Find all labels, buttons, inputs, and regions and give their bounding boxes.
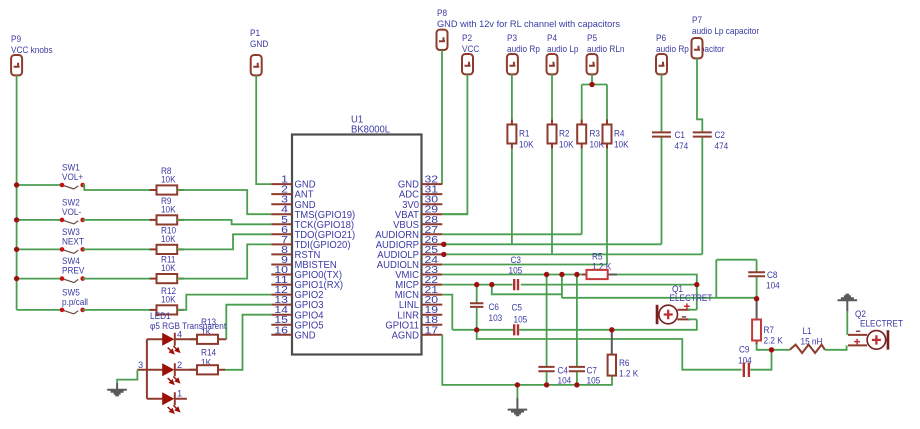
chip right pin lines	[422, 184, 443, 335]
wire R5 to Q1 plus junction	[617, 275, 697, 310]
svg-text:10K: 10K	[161, 175, 176, 185]
svg-text:VCC knobs: VCC knobs	[11, 45, 53, 55]
wire SW3 to R10	[83, 248, 157, 250]
svg-text:P4: P4	[547, 33, 557, 43]
svg-text:1.2 K: 1.2 K	[619, 369, 639, 379]
wire P5 split to R3 R4	[582, 74, 607, 124]
chip left pin names	[295, 180, 356, 342]
wire MICP link row	[492, 275, 757, 298]
svg-text:φ5 RGB Transparent: φ5 RGB Transparent	[150, 321, 226, 331]
svg-text:SW5: SW5	[62, 287, 80, 297]
svg-text:4: 4	[177, 329, 182, 339]
svg-text:R1: R1	[519, 129, 530, 139]
wire C9 to R7 junction	[750, 350, 771, 370]
wire L1 to Q2 plus	[825, 345, 847, 349]
wire LED pin 3 to ground	[117, 370, 137, 383]
wire R12 to pin 12	[177, 295, 271, 310]
svg-text:SW4: SW4	[62, 256, 80, 266]
wire P4 to R2	[551, 74, 553, 124]
svg-text:10K: 10K	[161, 234, 176, 244]
junction AGND row ground	[515, 382, 520, 387]
svg-text:10K: 10K	[519, 140, 534, 150]
wire SW1 to R8	[83, 185, 157, 190]
svg-text:10K: 10K	[559, 140, 574, 150]
junction MICN row C6	[474, 327, 479, 332]
wire C4 to AGND row	[546, 372, 548, 385]
svg-text:2: 2	[177, 360, 182, 370]
wire bus to SW2	[17, 219, 62, 221]
chip left pin lines	[271, 184, 292, 335]
svg-text:C8: C8	[767, 270, 778, 280]
junction R7 L1 C9 node	[769, 347, 774, 352]
wire R2 to pin 25 row	[551, 149, 553, 255]
svg-text:P7: P7	[692, 15, 702, 25]
svg-text:R4: R4	[614, 129, 625, 139]
svg-text:103: 103	[489, 313, 503, 323]
svg-text:C3: C3	[511, 255, 522, 265]
svg-text:104: 104	[766, 281, 780, 291]
wire bus to SW5	[17, 309, 62, 311]
ground above Q2	[838, 295, 858, 311]
svg-text:C6: C6	[489, 302, 500, 312]
svg-text:C7: C7	[587, 366, 598, 376]
svg-text:105: 105	[514, 315, 528, 325]
junction bus	[14, 217, 19, 222]
wire C7 to AGND row	[576, 372, 578, 385]
junction bus	[14, 276, 19, 281]
wire C6 to C5 row	[476, 308, 478, 330]
svg-text:Q2: Q2	[855, 309, 866, 319]
svg-text:P8: P8	[437, 8, 447, 18]
wire R1 to pin 26 row	[511, 149, 513, 245]
svg-text:2.2 K: 2.2 K	[764, 336, 784, 346]
wire C2 to pin 25 row	[701, 138, 703, 255]
wire P2 to pin 29 VBAT	[442, 74, 467, 214]
wire pin 14 to R14	[225, 315, 272, 370]
junction VMIC row link	[559, 272, 564, 277]
svg-text:PREV: PREV	[62, 266, 85, 276]
junction MICP row Q1	[694, 282, 699, 287]
svg-text:ELECTRET: ELECTRET	[670, 293, 713, 303]
svg-text:GND: GND	[295, 330, 316, 341]
wire pin 22 stub to C6	[476, 285, 478, 303]
svg-text:R7: R7	[764, 325, 775, 335]
wire pin 25 AUDIOLP row	[442, 253, 702, 255]
junction VMIC row C4	[544, 272, 549, 277]
wire C7 column	[576, 275, 578, 367]
svg-text:10K: 10K	[161, 263, 176, 273]
svg-text:audio Lp: audio Lp	[547, 44, 579, 54]
svg-text:audio Rp capacitor: audio Rp capacitor	[656, 44, 725, 54]
wire C5 row left	[452, 329, 513, 331]
svg-text:105: 105	[509, 266, 523, 276]
ground AGND	[516, 385, 518, 398]
svg-text:VOL+: VOL+	[62, 172, 83, 182]
wire R10 to pin 6	[177, 234, 271, 249]
wire SW5 to R12	[83, 309, 157, 311]
svg-text:SW2: SW2	[62, 197, 80, 207]
junction AGND row C4	[544, 382, 549, 387]
svg-text:R5: R5	[592, 252, 603, 262]
svg-text:SW1: SW1	[62, 163, 80, 173]
wire pin 13 to R13	[226, 305, 271, 340]
chip left pin numbers	[274, 175, 288, 337]
wire bus to SW4	[17, 278, 62, 280]
wire C8 top branch	[716, 260, 756, 298]
svg-text:474: 474	[715, 141, 729, 151]
wire C1 to pin 26 row	[661, 138, 663, 245]
svg-text:VOL-: VOL-	[62, 207, 81, 217]
svg-text:SW3: SW3	[62, 227, 80, 237]
junction pin 26 AUDIORP	[441, 242, 446, 247]
svg-text:audio Lp capacitor: audio Lp capacitor	[692, 26, 759, 36]
wire bus to SW1	[17, 184, 62, 186]
svg-text:1: 1	[177, 389, 182, 399]
wire R11 to pin 7	[177, 244, 271, 278]
svg-text:P2: P2	[462, 33, 472, 43]
wire P6 to C1	[661, 74, 663, 131]
wire R4 to pin 24 row	[606, 149, 608, 265]
svg-text:LED1: LED1	[150, 311, 171, 321]
wire pin 27 AUDIORN row	[442, 233, 581, 235]
junction MICP row C6	[474, 282, 479, 287]
svg-text:P3: P3	[507, 33, 517, 43]
svg-text:GND: GND	[250, 39, 269, 49]
wire Q2 minus to ground	[846, 311, 848, 335]
svg-text:L1: L1	[803, 326, 812, 336]
chip right pin numbers	[425, 175, 439, 337]
junction AGND row C7	[574, 382, 579, 387]
svg-text:16: 16	[274, 325, 288, 336]
wire R8 to pin 4	[177, 190, 271, 214]
junction P5 split node	[589, 82, 594, 87]
wire pin 21 MICN jog	[442, 295, 452, 330]
svg-text:R6: R6	[619, 358, 630, 368]
svg-text:VCC: VCC	[462, 44, 480, 54]
svg-text:3: 3	[138, 360, 143, 370]
svg-text:R14: R14	[201, 348, 216, 358]
svg-text:15 nH: 15 nH	[801, 337, 823, 347]
svg-text:10K: 10K	[614, 140, 629, 150]
svg-text:R3: R3	[590, 129, 601, 139]
wire P3 to R1	[511, 74, 513, 124]
wire R3 to pin 27 row	[581, 149, 583, 235]
svg-text:C2: C2	[715, 130, 726, 140]
junction VMIC row C7	[574, 272, 579, 277]
wire SW4 to R11	[83, 278, 157, 280]
wire pin 29 row	[442, 213, 467, 215]
svg-text:GND with 12v for RL channel wi: GND with 12v for RL channel with capacit…	[437, 19, 620, 29]
svg-text:AGND: AGND	[392, 330, 419, 341]
wire pin 24 AUDIOLN row	[442, 264, 607, 266]
svg-text:C5: C5	[512, 303, 523, 313]
junction C8 R7 node	[754, 296, 759, 301]
svg-text:C9: C9	[739, 345, 750, 355]
svg-text:P6: P6	[656, 33, 666, 43]
svg-text:p.p/call: p.p/call	[62, 297, 88, 307]
svg-text:P5: P5	[587, 33, 597, 43]
junction bus	[14, 182, 19, 187]
svg-text:474: 474	[675, 141, 689, 151]
wire pin 23 VMIC row	[442, 274, 586, 276]
wire SW2 to R9	[83, 219, 157, 221]
svg-text:10K: 10K	[161, 295, 176, 305]
svg-text:C4: C4	[558, 366, 569, 376]
svg-text:17: 17	[425, 325, 439, 336]
wire pin 26 AUDIORP row	[442, 243, 661, 245]
ground LED	[107, 383, 127, 396]
wire P8 to pin 32	[441, 50, 443, 184]
junction pin 25 AUDIOLP	[441, 252, 446, 257]
svg-text:10K: 10K	[161, 205, 176, 215]
wire C5 row to Q1 minus	[519, 319, 697, 329]
wire R9 to pin 5	[177, 220, 271, 224]
wire C4 column	[546, 275, 548, 367]
svg-text:ELECTRET: ELECTRET	[860, 319, 903, 329]
wire R7 bottom to L1 junction	[757, 344, 790, 350]
svg-text:R2: R2	[559, 129, 570, 139]
wire P1 to pin 1	[256, 75, 271, 184]
wire pin 22 MICP row	[442, 284, 697, 286]
wire pin 17 AGND row	[442, 335, 612, 385]
wire P7 to C2 jog	[697, 58, 702, 131]
wire P9 to switch bus	[16, 75, 18, 310]
svg-text:P1: P1	[250, 28, 260, 38]
chip right pin names	[375, 180, 419, 342]
wire C8 bottom to junction	[756, 277, 758, 299]
svg-text:P9: P9	[11, 34, 21, 44]
junction MICN row R6	[609, 327, 614, 332]
wire bus to SW3	[17, 248, 62, 250]
wire row to C9	[477, 330, 742, 370]
svg-text:audio Rp: audio Rp	[507, 44, 540, 54]
svg-text:NEXT: NEXT	[62, 237, 84, 247]
svg-text:C1: C1	[675, 130, 686, 140]
junction MICP row link	[489, 282, 494, 287]
junction bus	[14, 247, 19, 252]
svg-text:audio RLn: audio RLn	[587, 44, 625, 54]
